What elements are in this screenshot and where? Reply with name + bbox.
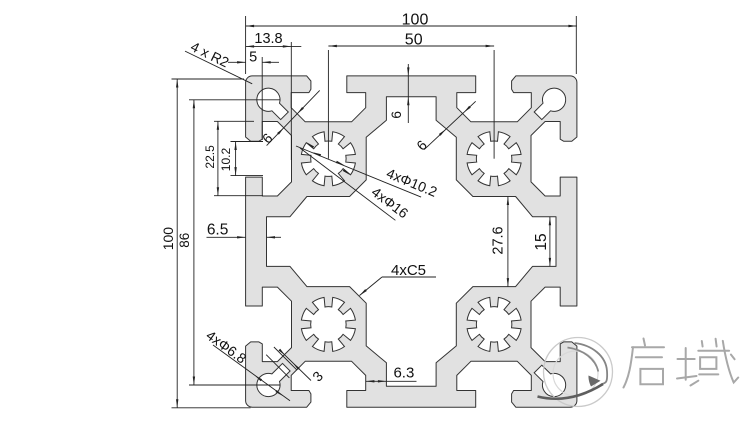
svg-text:100: 100 <box>402 11 429 28</box>
logo text 启域 <box>624 339 739 388</box>
dimension 27.6 (boss gap) <box>491 197 510 287</box>
logo mark (Qiyu circle) <box>538 338 613 407</box>
dimension 15 (flat) <box>533 217 551 267</box>
svg-text:22.5: 22.5 <box>203 145 217 169</box>
dimension 13.8 <box>246 31 302 160</box>
dimension 6.3 (bottom web) <box>366 365 417 383</box>
leader 4 x R2 (corner radius) <box>185 38 252 84</box>
svg-text:6.3: 6.3 <box>393 365 414 382</box>
svg-text:86: 86 <box>177 233 192 248</box>
leader 4xΦ10.2 (serration root) <box>296 146 440 200</box>
keyhole bottom-right (&#934;6.8 corner hole) <box>534 365 565 396</box>
dimension 100 (left height) <box>160 79 251 408</box>
dimension 22.5 (side cavity) <box>203 121 263 195</box>
svg-text:100: 100 <box>160 227 176 251</box>
leader 4xΦ16 (serration tip) <box>300 142 412 221</box>
dimension 100 (top width) <box>246 11 577 74</box>
svg-text:15: 15 <box>533 233 550 250</box>
svg-text:4xC5: 4xC5 <box>391 262 426 279</box>
svg-text:6: 6 <box>388 111 404 119</box>
keyhole top-right (&#934;6.8 corner hole) <box>534 88 565 119</box>
leader 4xC5 (boss chamfer) <box>360 262 437 296</box>
keyhole bottom-left (&#934;6.8 corner hole) <box>257 363 290 396</box>
dimension 10.2 (slot opening) <box>219 142 263 176</box>
gear hole top-right (&#934;10.2/&#934;16 serrated hole) <box>467 132 521 186</box>
leader 4xΦ6.8 (corner holes) <box>203 327 290 401</box>
dimension 6 (web, top-left) <box>259 90 320 146</box>
dimension 6 (top wall) <box>388 64 410 123</box>
dimension 5 <box>228 49 279 140</box>
dimension 3 (corner slot width) <box>266 347 326 384</box>
central cavity <box>267 97 557 387</box>
dimension 6.5 (wall) <box>207 221 282 238</box>
keyhole top-left (&#934;6.8 corner hole) <box>257 88 288 119</box>
svg-text:27.6: 27.6 <box>491 226 507 254</box>
dimension 50 (slot spacing) <box>328 32 494 159</box>
gear hole bottom-right (&#934;10.2/&#934;16 serrated hole) <box>467 297 521 351</box>
svg-text:6.5: 6.5 <box>207 221 229 238</box>
dimension 86 (hole spacing) <box>177 100 281 385</box>
svg-text:13.8: 13.8 <box>254 31 282 47</box>
gear hole top-left (&#934;10.2/&#934;16 serrated hole) <box>301 132 355 186</box>
gear hole bottom-left (&#934;10.2/&#934;16 serrated hole) <box>301 297 355 351</box>
svg-text:10.2: 10.2 <box>219 147 233 171</box>
extrusion profile body (100x100 cross-section) <box>246 76 577 407</box>
dimension 6 (web, top-right) <box>413 101 475 153</box>
svg-text:5: 5 <box>249 49 257 65</box>
svg-text:50: 50 <box>405 32 423 49</box>
